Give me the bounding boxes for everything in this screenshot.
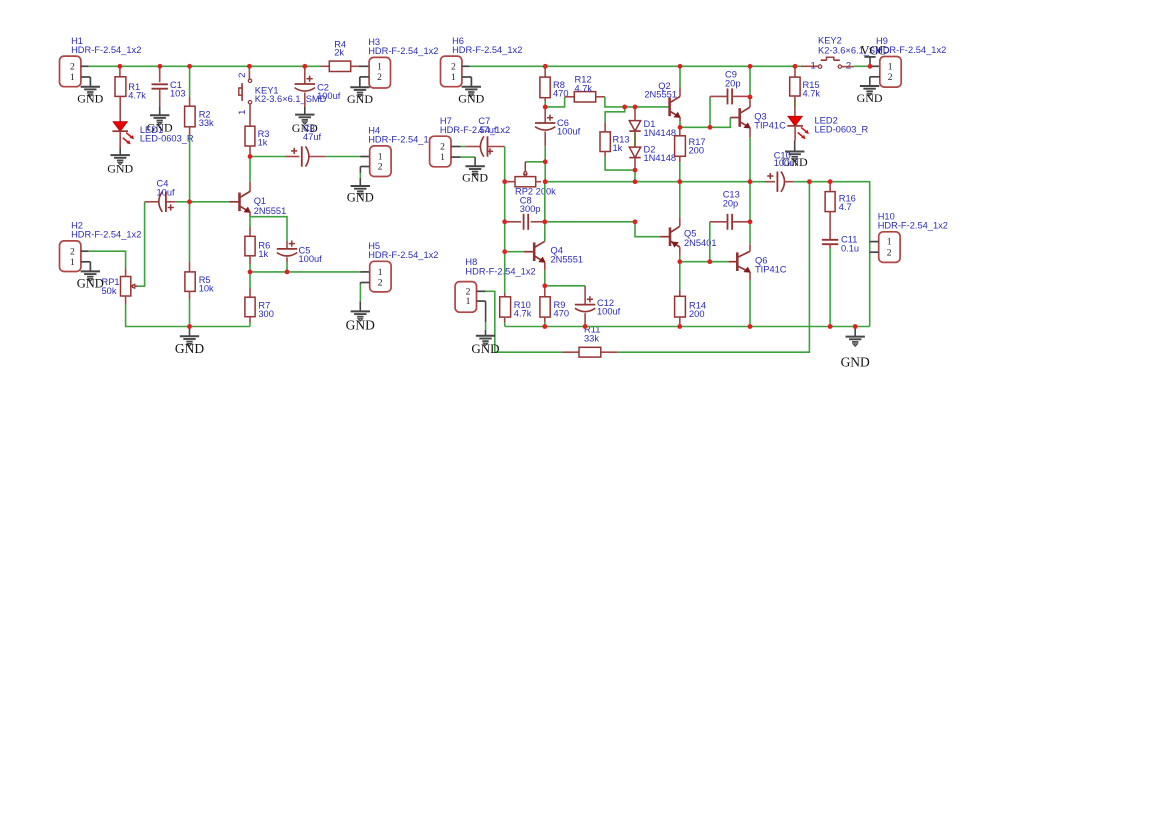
svg-text:2: 2: [451, 61, 456, 72]
svg-text:47uf: 47uf: [303, 132, 322, 142]
svg-text:GND: GND: [347, 191, 374, 205]
svg-text:VCC: VCC: [861, 44, 887, 58]
svg-text:1k: 1k: [258, 249, 268, 259]
svg-text:470: 470: [554, 309, 570, 319]
svg-text:4.7: 4.7: [839, 202, 852, 212]
svg-text:1: 1: [811, 61, 816, 72]
svg-text:HDR-F-2.54_1x2: HDR-F-2.54_1x2: [465, 267, 535, 277]
svg-text:H8: H8: [465, 257, 477, 267]
svg-text:4.7k: 4.7k: [803, 89, 821, 99]
svg-text:1: 1: [378, 267, 383, 278]
svg-text:10k: 10k: [199, 284, 214, 294]
svg-text:1: 1: [888, 61, 893, 72]
svg-text:100uf: 100uf: [774, 158, 798, 168]
svg-text:1k: 1k: [258, 138, 268, 148]
svg-text:GND: GND: [471, 341, 499, 356]
svg-text:GND: GND: [347, 92, 373, 106]
svg-text:300: 300: [258, 309, 274, 319]
svg-text:2: 2: [378, 162, 383, 173]
svg-text:2: 2: [70, 61, 75, 72]
svg-text:GND: GND: [841, 355, 870, 370]
svg-text:1: 1: [466, 296, 471, 307]
svg-text:2N5551: 2N5551: [551, 255, 584, 265]
svg-text:GND: GND: [346, 318, 375, 333]
svg-text:2: 2: [887, 247, 892, 258]
svg-text:2: 2: [377, 72, 382, 83]
svg-text:100uf: 100uf: [317, 91, 341, 101]
svg-text:1: 1: [70, 72, 75, 83]
svg-text:200: 200: [689, 309, 705, 319]
svg-text:0.1u: 0.1u: [841, 244, 859, 254]
svg-text:1: 1: [440, 152, 445, 163]
svg-text:4.7k: 4.7k: [514, 309, 532, 319]
svg-text:4.7k: 4.7k: [128, 91, 146, 101]
svg-text:GND: GND: [458, 92, 484, 106]
svg-text:2: 2: [440, 142, 445, 153]
svg-text:Q5: Q5: [684, 228, 696, 238]
svg-text:2: 2: [237, 73, 248, 78]
svg-text:2: 2: [888, 72, 893, 83]
svg-text:4.7k: 4.7k: [575, 83, 593, 93]
svg-text:1: 1: [377, 61, 382, 72]
svg-text:2N5551: 2N5551: [254, 206, 287, 216]
svg-text:33k: 33k: [584, 334, 599, 344]
svg-text:100uf: 100uf: [597, 307, 621, 317]
svg-text:2k: 2k: [334, 47, 344, 57]
svg-text:TIP41C: TIP41C: [754, 121, 786, 131]
svg-text:HDR-F-2.54_1x2: HDR-F-2.54_1x2: [71, 230, 141, 240]
svg-text:100uf: 100uf: [299, 254, 323, 264]
svg-text:1k: 1k: [613, 143, 623, 153]
svg-text:GND: GND: [77, 92, 103, 106]
svg-text:47uf: 47uf: [478, 125, 497, 135]
svg-text:HDR-F-2.54_1x2: HDR-F-2.54_1x2: [440, 125, 510, 135]
svg-text:1: 1: [887, 237, 892, 248]
svg-text:2: 2: [378, 278, 383, 289]
svg-text:K2-3.6×6.1_SMD: K2-3.6×6.1_SMD: [255, 94, 327, 104]
svg-text:20p: 20p: [725, 78, 741, 88]
svg-text:2N5401: 2N5401: [684, 238, 717, 248]
svg-text:KEY2: KEY2: [818, 36, 842, 46]
svg-text:33k: 33k: [199, 118, 214, 128]
svg-text:GND: GND: [462, 170, 488, 184]
svg-text:1: 1: [451, 72, 456, 83]
svg-text:HDR-F-2.54_1x2: HDR-F-2.54_1x2: [452, 45, 522, 55]
svg-text:LED-0603_R: LED-0603_R: [140, 134, 194, 144]
svg-text:HDR-F-2.54_1x2: HDR-F-2.54_1x2: [876, 45, 946, 55]
svg-text:103: 103: [170, 88, 186, 98]
svg-text:200: 200: [689, 146, 705, 156]
svg-text:Q1: Q1: [254, 196, 266, 206]
svg-text:100uf: 100uf: [557, 127, 581, 137]
svg-text:GND: GND: [857, 91, 883, 105]
svg-text:10uf: 10uf: [157, 188, 176, 198]
svg-text:GND: GND: [77, 277, 104, 291]
svg-text:2N5551: 2N5551: [644, 90, 677, 100]
svg-text:TIP41C: TIP41C: [755, 265, 787, 275]
svg-text:2: 2: [70, 246, 75, 257]
svg-text:HDR-F-2.54_1x2: HDR-F-2.54_1x2: [878, 221, 948, 231]
svg-text:1N4148: 1N4148: [644, 128, 677, 138]
svg-text:HDR-F-2.54_1x2: HDR-F-2.54_1x2: [368, 46, 438, 56]
svg-text:GND: GND: [147, 120, 173, 134]
svg-text:GND: GND: [175, 341, 204, 356]
svg-text:300p: 300p: [520, 204, 541, 214]
svg-text:HDR-F-2.54_1x2: HDR-F-2.54_1x2: [368, 250, 438, 260]
svg-text:HDR-F-2.54_1x2: HDR-F-2.54_1x2: [368, 135, 438, 145]
svg-text:1: 1: [237, 110, 248, 115]
svg-text:1N4148: 1N4148: [644, 153, 677, 163]
svg-text:20p: 20p: [723, 199, 739, 209]
svg-text:GND: GND: [107, 161, 133, 175]
svg-text:LED-0603_R: LED-0603_R: [815, 125, 869, 135]
svg-text:HDR-F-2.54_1x2: HDR-F-2.54_1x2: [71, 45, 141, 55]
svg-text:1: 1: [70, 257, 75, 268]
